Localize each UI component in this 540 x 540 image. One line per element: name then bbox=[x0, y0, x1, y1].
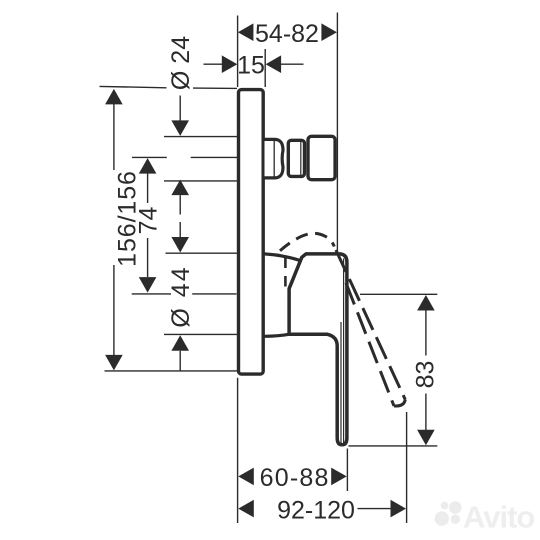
vertical extension line spout end (x337.4) bbox=[336, 13, 338, 259]
lever inner contour lines bbox=[343, 259, 345, 444]
centerline spout axis (y157.4) bbox=[132, 156, 237, 158]
Avito watermark logo circles bbox=[435, 501, 462, 525]
handle cap hidden dashed line bbox=[284, 258, 287, 289]
dimension O44 arrows (outside) bbox=[171, 237, 189, 253]
extension line handle cap top (y253.2) bbox=[166, 252, 238, 254]
vertical extension line dashed-lever tip (x406.6) bbox=[406, 412, 408, 523]
dashed lever alternate position: top arc + right edge bbox=[280, 233, 334, 250]
svg-text:74: 74 bbox=[134, 207, 162, 235]
spout collar inner line bbox=[273, 140, 275, 178]
dimension 156/156 vertical bbox=[105, 89, 123, 105]
handle cap (cone at plate) bbox=[265, 254, 300, 261]
extension line 83 top (y294.3) bbox=[360, 293, 437, 295]
extension line spout top (y136.6) bbox=[164, 136, 237, 138]
vertical extension line plate left above (x237.6) bbox=[237, 16, 239, 88]
dimension 92-120 arrows bbox=[238, 500, 254, 518]
dimension 74 vertical bbox=[139, 158, 157, 174]
svg-text:83: 83 bbox=[412, 361, 440, 389]
dashed lever end cap bbox=[394, 400, 405, 407]
svg-text:92-120: 92-120 bbox=[277, 497, 355, 525]
dimension 83 vertical bbox=[417, 295, 435, 311]
svg-text:Ø 24: Ø 24 bbox=[167, 36, 195, 90]
extension line bottom of plate (y371) bbox=[105, 370, 238, 372]
spout ring inner line bbox=[300, 142, 302, 176]
vertical extension line plate left below (x237.6) bbox=[237, 378, 239, 523]
spout collar at plate bbox=[265, 139, 284, 178]
vertical extension line lever bottom (x347.4) bbox=[346, 449, 348, 492]
extension line top of plate (y88) bbox=[100, 86, 238, 88]
extension line 83 bottom (y445.9) bbox=[349, 445, 438, 447]
extension line handle cap bottom (y334.4) bbox=[164, 333, 237, 335]
dimension 15 arrows bbox=[204, 63, 223, 65]
dashed lever left edge bbox=[346, 283, 394, 406]
wall plate (escutcheon, side view) bbox=[239, 90, 264, 375]
dimension 60-88 arrows bbox=[238, 468, 254, 486]
svg-text:60-88: 60-88 bbox=[260, 464, 330, 492]
spout ring bbox=[288, 140, 304, 176]
dimension O24 arrows (outside) bbox=[179, 96, 181, 122]
svg-text:Avito: Avito bbox=[463, 500, 534, 535]
centerline handle axis (y293.9) bbox=[132, 293, 237, 295]
vertical extension line plate right above (x265.2) bbox=[264, 49, 266, 87]
svg-text:15: 15 bbox=[237, 51, 265, 79]
spout end piece bbox=[308, 136, 335, 179]
svg-text:54-82: 54-82 bbox=[255, 20, 319, 48]
svg-text:Ø 44: Ø 44 bbox=[167, 265, 195, 327]
extension line spout bottom (y180.9) bbox=[164, 180, 237, 182]
handle body and lever (solid, pointing down) bbox=[289, 254, 347, 445]
dimension 54-82 arrows bbox=[238, 23, 254, 41]
